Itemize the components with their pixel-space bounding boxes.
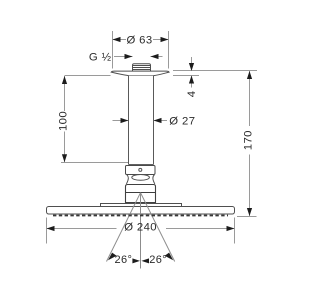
pipe (Ø27 shaft) [129,76,154,165]
arrow 4 pointing down [189,63,194,71]
arrow Ø240 left [47,226,55,231]
dim line G1/2 left [114,56,133,58]
nozzle dashes on head bottom [53,215,228,217]
angle arrow onto left spray line [108,253,117,261]
arrow Ø27 pointing left [154,118,162,123]
pipe right wall [153,76,155,165]
set screw circle [139,168,142,171]
angle arrow pointing left at center line [141,258,149,263]
svg-text:G ½: G ½ [89,52,112,64]
arrow Ø63 right [161,37,169,42]
ceiling line right [173,70,257,72]
flange bottom reference line right [173,75,199,77]
arrow 4 pointing up [189,76,194,84]
reference line left bottom (pipe end) [61,162,131,164]
svg-text:4: 4 [186,91,198,98]
ball of swivel joint [132,175,150,181]
extension line Ø240 left [46,218,48,244]
arrow Ø63 left [113,37,121,42]
svg-text:100: 100 [57,111,69,131]
socket right curve [153,175,155,184]
dim line 100 lower segment [64,132,66,163]
dim line Ø240 right segment [166,228,235,230]
thread G1/2 stack [133,64,151,71]
pipe left wall [128,76,130,165]
dim line 170 lower segment [249,155,251,217]
arrow 100 pointing up [62,76,67,84]
extension line left of Ø63 [112,31,114,69]
svg-text:26°: 26° [149,254,167,266]
svg-text:26°: 26° [114,254,132,266]
angle arrow onto right spray line [165,253,174,261]
dim line 4 lower [191,76,193,88]
arrow 170 pointing up [247,71,252,79]
reference line bottom of 170 [237,216,257,218]
arrow 100 pointing down [62,154,67,162]
svg-text:Ø 240: Ø 240 [124,221,157,233]
dim line Ø63 right segment [153,39,169,41]
dim line 100 upper segment [64,76,66,111]
angle arrow pointing right at center line [132,258,140,263]
dim line Ø63 left segment [113,39,127,41]
collar with set screw [126,166,156,175]
dim line Ø27 right [154,120,168,122]
pipe bottom cap [129,164,154,166]
arrow 170 pointing down [247,208,252,216]
nut (lower collar) [126,185,156,203]
dim line Ø27 left [113,120,129,122]
arrow G1/2 pointing left [151,54,159,59]
spray cone right line [141,193,175,262]
arrow G1/2 pointing right [125,54,133,59]
dim line 170 upper segment [249,71,251,126]
arrow Ø27 pointing right [121,118,129,123]
extension line right of Ø63 [168,31,170,69]
arrow Ø240 right [227,226,235,231]
extension line Ø240 right [234,218,236,244]
shower head disk [47,207,235,215]
reference line left top (ceiling level) [65,75,111,77]
nut divider line [126,192,156,194]
spray cone center line [140,193,142,269]
dim line 4 upper [191,57,193,71]
ceiling flange plate [111,71,169,75]
svg-text:Ø 27: Ø 27 [169,115,195,127]
raised platform on head [101,204,182,207]
dim line G1/2 right [151,56,163,58]
svg-text:Ø 63: Ø 63 [126,34,152,46]
dim line Ø240 left segment [47,228,117,230]
spray cone left line [107,193,141,262]
socket left curve [126,175,128,184]
svg-text:170: 170 [242,130,254,150]
